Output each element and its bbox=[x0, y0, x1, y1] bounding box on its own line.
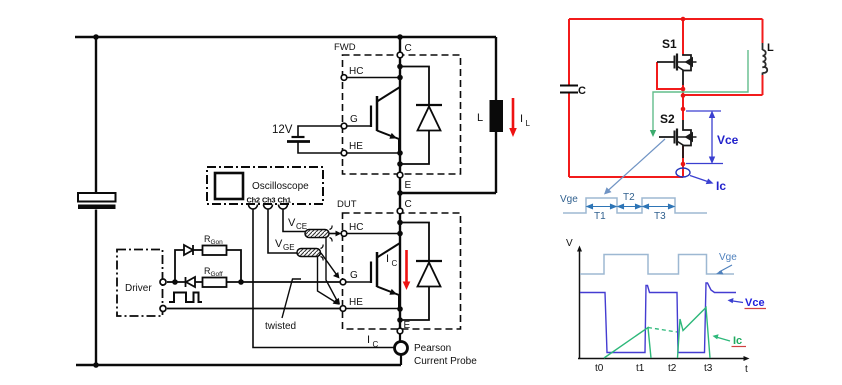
transistor S2 bbox=[659, 120, 697, 158]
terminal C DUT bbox=[397, 208, 403, 214]
waveform Ic plot bbox=[604, 308, 710, 359]
wire HC DUT bbox=[347, 233, 400, 235]
wire red S1 gate loop bbox=[657, 62, 681, 89]
labels t ticks bbox=[595, 363, 748, 375]
svg-text:Pearson: Pearson bbox=[414, 343, 451, 354]
hook VGE coax bbox=[321, 245, 324, 261]
wire HE DUT bbox=[346, 308, 400, 310]
resistor RGoff bbox=[203, 278, 227, 288]
wire HC bbox=[347, 77, 400, 79]
diode DUT bbox=[416, 260, 442, 262]
wire Ch3 to VGE probe bbox=[268, 209, 297, 253]
terminal G FWD bbox=[341, 123, 347, 129]
wire battery to HE bbox=[298, 142, 341, 154]
svg-text:I: I bbox=[367, 334, 370, 346]
wire emitter return to HE bbox=[167, 308, 340, 310]
terminal driver out2 bbox=[160, 306, 166, 312]
wire gate FWD bbox=[347, 125, 371, 127]
driver box bbox=[117, 250, 163, 317]
wire driver to gate network bbox=[167, 281, 175, 283]
pulse symbol bbox=[169, 293, 202, 303]
arrow Vge plot bbox=[719, 265, 732, 272]
wire main collector line bbox=[399, 37, 401, 172]
svg-text:Ic: Ic bbox=[733, 335, 742, 347]
svg-text:Vge: Vge bbox=[719, 252, 737, 263]
node top-left junction bbox=[93, 34, 99, 40]
IGBT DUT emitter bbox=[377, 287, 399, 310]
svg-text:DUT: DUT bbox=[337, 199, 357, 210]
wire red center bbox=[682, 19, 684, 177]
resistor RGon bbox=[203, 246, 227, 256]
terminal E FWD bbox=[397, 172, 403, 178]
svg-text:Gon: Gon bbox=[211, 239, 224, 246]
wire red top rail bbox=[569, 18, 763, 20]
IGBT DUT gate bar bbox=[370, 262, 372, 284]
node diode top junction bbox=[397, 64, 403, 70]
node bottom-left junction bbox=[93, 362, 99, 368]
wire battery to G bbox=[298, 126, 341, 137]
IGBT FWD emitter bbox=[377, 131, 399, 154]
wire VGE to G bbox=[321, 253, 337, 275]
IGBT DUT collector bbox=[377, 243, 400, 258]
svg-text:I: I bbox=[386, 253, 389, 265]
node HE junction bbox=[397, 150, 403, 156]
terminal HE FWD bbox=[341, 150, 347, 156]
svg-text:I: I bbox=[520, 113, 523, 125]
svg-text:Vce: Vce bbox=[745, 297, 765, 309]
svg-text:HE: HE bbox=[349, 297, 363, 308]
svg-text:S2: S2 bbox=[660, 112, 675, 126]
wire red right rail bbox=[683, 19, 763, 95]
wire VCE shield to HE bbox=[326, 238, 338, 302]
wire bottom bus bbox=[76, 364, 401, 366]
svg-text:Vce: Vce bbox=[717, 133, 739, 147]
svg-text:Ch1: Ch1 bbox=[278, 196, 291, 205]
wire left vertical rail bbox=[95, 37, 97, 365]
wire DUT diode top branch bbox=[400, 223, 429, 261]
dimension Vce blue bbox=[686, 111, 723, 164]
svg-text:Ch3: Ch3 bbox=[262, 196, 275, 205]
node gate resistor junction bbox=[238, 279, 244, 285]
svg-text:Current Probe: Current Probe bbox=[414, 356, 477, 367]
svg-text:C: C bbox=[392, 259, 398, 268]
waveform Vce plot bbox=[580, 283, 736, 353]
node DUT HE junction bbox=[397, 306, 403, 312]
wire gate DUT bbox=[346, 281, 371, 283]
svg-text:L: L bbox=[477, 112, 483, 124]
wire Ch2 to Pearson probe bbox=[253, 209, 394, 348]
terminal HC DUT bbox=[341, 231, 347, 237]
coax probe VCE bbox=[305, 230, 329, 238]
node red dots bbox=[681, 17, 686, 167]
svg-text:GE: GE bbox=[283, 243, 295, 252]
diode DGon bbox=[184, 245, 193, 255]
svg-text:Ch2: Ch2 bbox=[247, 196, 260, 205]
IGBT DUT body bar bbox=[376, 252, 379, 287]
probe ellipse Ic bbox=[676, 168, 690, 177]
svg-text:G: G bbox=[350, 114, 358, 125]
node top bus to FWD junction bbox=[397, 34, 403, 40]
terminal driver out1 bbox=[160, 279, 166, 285]
node DUT diode top junction bbox=[397, 220, 403, 226]
axis Y bbox=[579, 250, 581, 359]
svg-text:FWD: FWD bbox=[334, 42, 356, 53]
waveform Ic dashed bbox=[648, 328, 677, 333]
FWD module box bbox=[343, 55, 461, 174]
svg-text:t: t bbox=[745, 364, 748, 375]
hook VCE coax bbox=[330, 226, 333, 242]
terminal E DUT bbox=[397, 328, 403, 334]
terminal HC FWD bbox=[341, 75, 347, 81]
node diode bottom junction bbox=[397, 161, 403, 167]
arrow Ic blue bbox=[690, 176, 709, 183]
inductor L right bbox=[763, 43, 768, 75]
wire diode top branch bbox=[400, 67, 429, 105]
svg-text:t0: t0 bbox=[595, 363, 604, 374]
wire right loop to load bbox=[400, 37, 496, 193]
wire Ch1 to VCE probe bbox=[283, 209, 305, 232]
svg-text:t3: t3 bbox=[704, 363, 713, 374]
terminal C FWD bbox=[397, 52, 403, 58]
svg-text:C: C bbox=[578, 85, 586, 97]
axis X bbox=[578, 358, 745, 360]
svg-text:L: L bbox=[767, 42, 774, 54]
IGBT FWD gate bar bbox=[370, 106, 372, 128]
callout twisted bbox=[282, 279, 301, 318]
wire top DC bus bbox=[75, 36, 496, 38]
labels Ch2 Ch3 Ch1 bbox=[247, 196, 291, 205]
inductor L load bbox=[490, 100, 504, 132]
transistor S1 bbox=[657, 54, 697, 86]
wire main DUT line bbox=[399, 178, 401, 328]
svg-text:E: E bbox=[404, 320, 411, 331]
terminal HE DUT bbox=[340, 306, 346, 312]
svg-text:t1: t1 bbox=[636, 363, 645, 374]
DUT module box bbox=[343, 213, 461, 329]
capacitor DC-link bbox=[78, 193, 116, 202]
diode DGoff bbox=[186, 277, 196, 287]
waveform Vge plot bbox=[580, 255, 734, 275]
wire E to probe bbox=[399, 334, 401, 342]
svg-text:Driver: Driver bbox=[125, 283, 152, 294]
svg-text:HC: HC bbox=[349, 66, 363, 77]
IGBT FWD collector bbox=[377, 87, 400, 102]
svg-text:T1: T1 bbox=[594, 211, 606, 222]
svg-text:12V: 12V bbox=[272, 124, 293, 136]
svg-text:S1: S1 bbox=[662, 37, 677, 51]
svg-text:t2: t2 bbox=[668, 363, 677, 374]
svg-text:Oscilloscope: Oscilloscope bbox=[252, 181, 309, 192]
node DUT diode bottom junction bbox=[397, 317, 403, 323]
terminal G DUT bbox=[340, 279, 346, 285]
svg-text:C: C bbox=[373, 340, 379, 349]
wire gate line to G bbox=[227, 281, 341, 283]
svg-text:T3: T3 bbox=[654, 211, 666, 222]
connector bumps bbox=[249, 205, 288, 210]
IGBT FWD body bar bbox=[376, 96, 379, 131]
dimension T3 bbox=[645, 206, 672, 208]
capacitor C right bbox=[560, 86, 578, 93]
svg-text:E: E bbox=[405, 180, 412, 191]
arrow callout S2 to timing bbox=[608, 139, 666, 191]
svg-text:V: V bbox=[288, 217, 296, 229]
wire HE bbox=[347, 152, 400, 154]
waveform Vge timing bbox=[563, 198, 707, 213]
svg-text:C: C bbox=[405, 199, 412, 210]
wire green sense bbox=[653, 50, 748, 131]
arrow IL red bbox=[509, 98, 517, 137]
diode FWD bbox=[416, 104, 442, 106]
wire red bottom rail bbox=[569, 176, 683, 178]
wire RGon branch bbox=[175, 250, 184, 282]
svg-text:V: V bbox=[275, 238, 283, 250]
node DUT HC junction bbox=[397, 231, 403, 237]
svg-text:T2: T2 bbox=[623, 192, 635, 203]
svg-text:Vge: Vge bbox=[560, 194, 578, 205]
arrow IC red bbox=[403, 250, 411, 290]
coax probe VGE bbox=[297, 249, 321, 257]
svg-text:V: V bbox=[566, 238, 573, 249]
oscilloscope box bbox=[207, 167, 323, 204]
arrow Vce plot bbox=[732, 301, 743, 303]
svg-text:Ic: Ic bbox=[716, 179, 726, 193]
svg-text:CE: CE bbox=[296, 222, 307, 231]
svg-text:twisted: twisted bbox=[265, 321, 296, 332]
wire red left rail bbox=[568, 19, 570, 177]
arrow Ic plot bbox=[717, 337, 730, 341]
Pearson current probe bbox=[395, 342, 408, 355]
node phase to load junction bbox=[397, 190, 403, 196]
node HC junction bbox=[397, 75, 403, 81]
arrow VCE to HC bbox=[329, 233, 337, 235]
svg-text:HE: HE bbox=[349, 141, 363, 152]
svg-text:Goff: Goff bbox=[211, 271, 223, 278]
oscilloscope screen bbox=[215, 173, 243, 199]
svg-text:L: L bbox=[526, 119, 531, 128]
wire VGE shield to HE bbox=[318, 257, 337, 303]
svg-text:C: C bbox=[405, 43, 412, 54]
dimension T1 bbox=[587, 204, 674, 208]
dimension T2 bbox=[620, 206, 639, 208]
svg-text:G: G bbox=[350, 270, 358, 281]
svg-text:HC: HC bbox=[349, 222, 363, 233]
